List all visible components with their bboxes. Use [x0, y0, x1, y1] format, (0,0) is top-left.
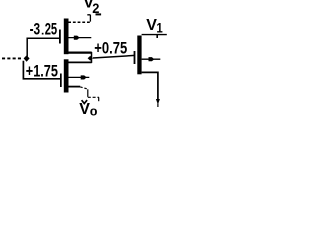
- wire M2 source stub: [69, 86, 81, 88]
- transistor M1 channel bar: [64, 19, 69, 55]
- wire M2 drain line: [69, 61, 92, 63]
- wire input node to gate of M2: [23, 61, 60, 79]
- svg-text:-3: -3: [30, 21, 41, 39]
- wire V2 leader hook: [87, 15, 90, 22]
- svg-text:+1.75: +1.75: [26, 63, 58, 81]
- wire dashed drain lead of M1 (node V2): [68, 21, 90, 23]
- wire V1 tick: [156, 35, 158, 38]
- wire arrow tail: [157, 104, 159, 108]
- svg-text:V: V: [79, 101, 90, 118]
- label V0: [79, 101, 97, 118]
- wire gate of M1 from input node: [27, 38, 60, 56]
- wire M3 source elbow down: [142, 72, 158, 99]
- svg-text:0: 0: [90, 107, 98, 119]
- wire M3 bulk line with arrow: [142, 58, 161, 60]
- node V0 arrowhead caret: [82, 100, 88, 103]
- transistor M2 gate bar: [60, 74, 62, 88]
- label V1: [146, 17, 163, 35]
- wire M1 source line: [69, 51, 92, 53]
- wire M1 bulk line with arrow: [69, 37, 92, 39]
- node input arrow diamond: [24, 55, 30, 61]
- label V2: [83, 0, 99, 16]
- wire node to gate of M3: [93, 55, 135, 58]
- transistor M1 gate bar: [59, 30, 61, 44]
- node junction diamond: [88, 56, 93, 61]
- wire M3 drain line (node V1): [142, 34, 167, 36]
- wire V2 underbar dash: [96, 13, 102, 15]
- wire dashed input lead: [2, 57, 23, 59]
- wire junction bracket vertical: [91, 52, 93, 63]
- node source arrow down: [156, 99, 160, 105]
- wire M2 bulk line with arrow: [69, 76, 90, 78]
- svg-text:+0.75: +0.75: [94, 40, 127, 58]
- svg-text:1: 1: [156, 21, 162, 36]
- svg-text:25: 25: [45, 19, 58, 38]
- transistor M2 channel bar: [64, 59, 69, 92]
- transistor M3 channel bar: [137, 36, 141, 75]
- transistor M3 gate bar: [134, 51, 136, 64]
- wire dashed V0 leader: [80, 87, 99, 101]
